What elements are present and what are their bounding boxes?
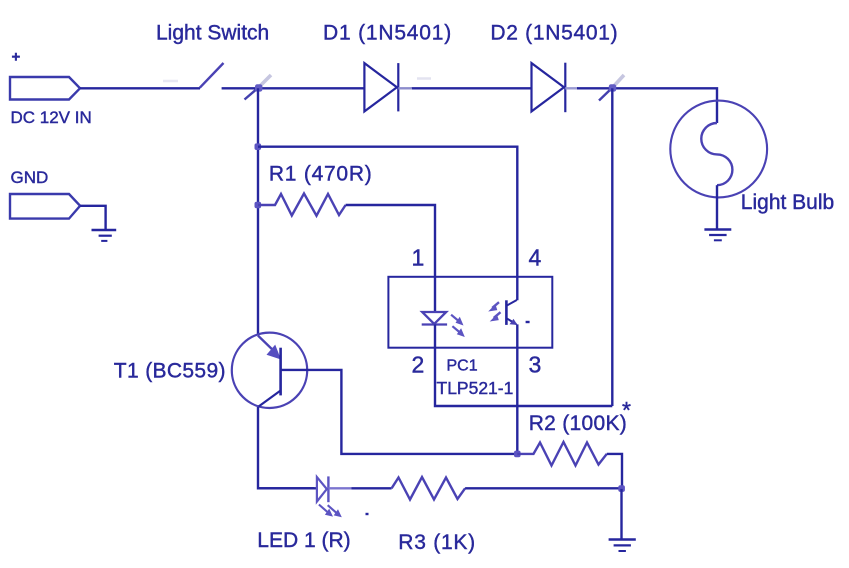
artifact small dot right of LED1 xyxy=(366,513,369,515)
diode D1 cathode bar xyxy=(397,63,399,111)
ground symbol bottom right xyxy=(609,540,636,552)
connector J2 GND xyxy=(10,194,80,219)
artifact light wire segment right of D1 xyxy=(398,87,412,89)
slash mark light half at node A xyxy=(259,75,272,88)
wire node B rail vertical xyxy=(611,88,613,406)
wire switch to D1 xyxy=(222,87,365,89)
artifact small dash right of opto emitter xyxy=(526,321,530,323)
svg-text:4: 4 xyxy=(529,245,542,271)
transistor Q1 collector diagonal xyxy=(259,391,281,407)
transistor Q1 emitter diagonal xyxy=(258,336,278,355)
wire Q1 base to R2 row xyxy=(281,370,517,454)
svg-text:GND: GND xyxy=(11,168,49,187)
svg-text:LED 1 (R): LED 1 (R) xyxy=(257,529,350,552)
svg-text:3: 3 xyxy=(529,352,542,378)
svg-text:Light Bulb: Light Bulb xyxy=(741,191,834,214)
transistor Q1 T1 circle xyxy=(232,333,307,408)
node C junction dot left rail to pin4 feed xyxy=(255,143,262,150)
diode D1 triangle xyxy=(364,63,397,111)
LED D3 emission arrow 2 xyxy=(328,505,342,517)
opto phototransistor base bar xyxy=(505,300,508,325)
slash mark dark half at node A xyxy=(245,88,259,100)
wire GND connector to ground xyxy=(80,206,106,230)
svg-text:Light Switch: Light Switch xyxy=(156,22,269,45)
LED D3 emission arrow 1 xyxy=(319,505,333,517)
diode D2 cathode bar xyxy=(564,63,566,112)
wire R1 to pin 1 xyxy=(346,205,435,312)
node F junction dot xyxy=(618,485,625,492)
svg-text:2: 2 xyxy=(412,352,425,378)
svg-text:D2 (1N5401): D2 (1N5401) xyxy=(490,22,618,45)
wire pin 2 down and right to node B rail xyxy=(435,325,612,407)
wire LED1 cathode to R3 light segment xyxy=(328,487,351,489)
wire pin 3 down xyxy=(516,324,518,454)
opto phototransistor light arrow 2 xyxy=(490,312,501,321)
wire bulb bottom stem xyxy=(716,185,718,229)
wire LED1 to R3 xyxy=(352,487,392,489)
svg-text:TLP521-1: TLP521-1 xyxy=(437,378,514,398)
wire Q1 collector down to LED row xyxy=(258,407,314,488)
opto LED cathode bar xyxy=(422,323,447,325)
LED D3 cathode bar xyxy=(327,476,329,502)
wire node C to pin 4 xyxy=(258,147,517,301)
lamp LB1 filament S curve xyxy=(701,123,732,185)
opto phototransistor emitter diagonal with arrow xyxy=(506,318,517,325)
diode D2 triangle xyxy=(532,63,565,111)
transistor Q1 emitter arrowhead xyxy=(267,345,282,360)
opto LED emission arrow 2 xyxy=(452,326,464,337)
node E junction dot R2 left xyxy=(514,451,521,458)
opto phototransistor light arrow 1 xyxy=(488,302,499,311)
wire D2 to bulb corner xyxy=(577,88,717,123)
wire J1 to switch xyxy=(80,87,200,89)
transistor Q1 base bar xyxy=(279,348,282,396)
node B junction dot at D2 corner xyxy=(609,84,616,91)
svg-text:R2 (100K): R2 (100K) xyxy=(529,412,627,435)
optocoupler U1 box PC1 xyxy=(388,277,552,348)
slash mark light half at node B xyxy=(613,75,625,88)
resistor R2 zigzag xyxy=(517,442,607,466)
svg-text:DC 12V IN: DC 12V IN xyxy=(11,108,92,127)
opto LED emission arrow 1 xyxy=(451,315,463,326)
wire left rail vertical xyxy=(257,88,259,335)
svg-text:+: + xyxy=(12,49,21,66)
node A junction dot at switch corner xyxy=(255,84,262,91)
ground symbol under bulb xyxy=(704,230,731,241)
resistor R1 zigzag xyxy=(258,194,346,216)
wire R2 right down to node F xyxy=(607,454,622,489)
resistor R3 zigzag xyxy=(392,477,466,500)
slash mark dark half at node B xyxy=(599,88,613,101)
opto LED triangle xyxy=(422,312,446,324)
svg-text:T1 (BC559): T1 (BC559) xyxy=(114,360,226,383)
switch SW1 lever xyxy=(200,63,224,88)
connector J1 DC 12V IN xyxy=(10,77,80,100)
svg-text:R1 (470R): R1 (470R) xyxy=(269,163,373,186)
wire R3 to node F xyxy=(465,487,621,489)
artifact light wire segment right of D2 xyxy=(565,87,578,89)
wire D1 to D2 xyxy=(411,87,532,89)
LED D3 LED1 left wire xyxy=(258,487,317,489)
opto phototransistor collector diagonal xyxy=(506,300,516,306)
ground symbol at GND connector xyxy=(92,230,117,241)
artifact grey dash right of D1 xyxy=(417,77,431,80)
wire node F down to ground xyxy=(620,489,622,539)
svg-text:PC1: PC1 xyxy=(447,358,478,375)
lamp LB1 bulb circle xyxy=(670,101,767,198)
LED D3 triangle xyxy=(317,477,327,502)
svg-text:*: * xyxy=(622,397,631,423)
svg-text:R3 (1K): R3 (1K) xyxy=(398,531,476,554)
artifact grey dash on wire xyxy=(163,80,178,83)
svg-text:1: 1 xyxy=(412,245,425,271)
svg-text:D1 (1N5401): D1 (1N5401) xyxy=(323,22,452,45)
node D junction dot left rail to R1 xyxy=(255,202,262,209)
